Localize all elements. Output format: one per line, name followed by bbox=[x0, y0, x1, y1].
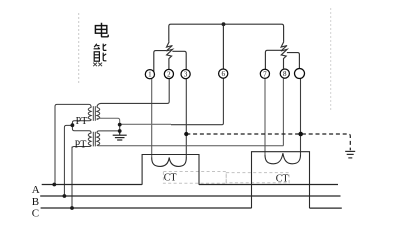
svg-text:6: 6 bbox=[221, 70, 225, 78]
svg-text:PT: PT bbox=[75, 139, 87, 150]
svg-text:8: 8 bbox=[283, 70, 287, 78]
svg-text:3: 3 bbox=[184, 71, 188, 79]
svg-text:1: 1 bbox=[148, 71, 152, 79]
svg-text:2: 2 bbox=[167, 71, 171, 79]
svg-text:CT: CT bbox=[164, 172, 177, 183]
svg-text:CT: CT bbox=[276, 174, 289, 185]
svg-text:C: C bbox=[32, 207, 39, 219]
svg-text:A: A bbox=[32, 184, 40, 196]
svg-text:PT: PT bbox=[76, 116, 88, 127]
svg-text:B: B bbox=[32, 196, 39, 208]
svg-text:7: 7 bbox=[263, 70, 267, 78]
